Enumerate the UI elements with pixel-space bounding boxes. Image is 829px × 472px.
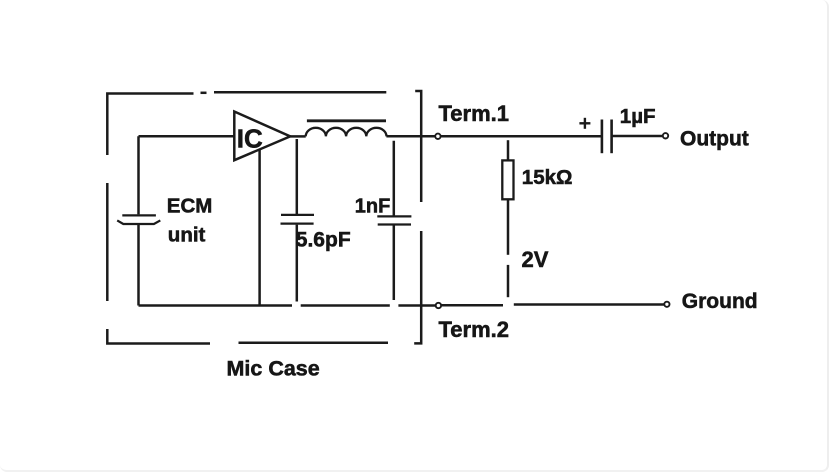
- wire: inductor to Term.1 to 1uF cap: [386, 135, 601, 138]
- wire: IC ground pin: [258, 150, 261, 306]
- wire: resistor branch lower segment 2: [507, 265, 510, 297]
- wire: bottom ground bus to Term.2: [398, 304, 437, 307]
- svg-text:1µF: 1µF: [620, 105, 656, 128]
- wire: resistor junction to Ground terminal: [514, 303, 665, 306]
- svg-text:Term.2: Term.2: [439, 317, 510, 342]
- svg-text:1nF: 1nF: [355, 195, 391, 217]
- wire: bottom ground bus mid: [301, 304, 390, 307]
- svg-text:Term.1: Term.1: [439, 101, 510, 126]
- wire: bottom ground bus left: [139, 304, 293, 307]
- svg-text:5.6pF: 5.6pF: [296, 228, 351, 251]
- electret capsule: ECM unit capacitor symbol: [117, 215, 160, 224]
- wire: resistor branch lower segment 1: [507, 199, 510, 255]
- svg-text:15kΩ: 15kΩ: [522, 166, 573, 189]
- node Ground terminal circle: [664, 302, 669, 307]
- node Term.2 terminal circle: [436, 303, 441, 308]
- svg-text:Output: Output: [680, 127, 749, 150]
- svg-text:Mic Case: Mic Case: [227, 357, 320, 381]
- svg-text:unit: unit: [168, 223, 206, 246]
- node Output terminal circle: [663, 133, 668, 138]
- node Term.1 terminal circle: [435, 134, 440, 139]
- svg-text:Ground: Ground: [682, 290, 758, 313]
- wire: ECM top to IC input (net A): [139, 135, 235, 138]
- wire: resistor branch upper: [507, 140, 510, 160]
- plus polarity mark: [579, 118, 590, 129]
- capacitor 5.6pF: [281, 215, 315, 224]
- capacitor 1nF: [377, 216, 411, 224]
- wire: 1nF branch upper: [393, 141, 396, 216]
- wire: Term.2 to resistor junction: [440, 304, 503, 307]
- resistor 15k ohm body: [502, 160, 513, 199]
- svg-text:ECM: ECM: [167, 195, 213, 218]
- op-amp IC (amplifier triangle): [234, 112, 290, 161]
- svg-text:IC: IC: [237, 123, 263, 153]
- inductor core bar: [307, 119, 386, 122]
- wire: 5.6pF branch upper: [296, 139, 299, 214]
- inductor L1 coil: [306, 128, 387, 137]
- wire: 5.6pF branch lower: [296, 225, 299, 302]
- wire: ECM branch vertical upper: [137, 136, 140, 214]
- wire: IC output to inductor: [290, 135, 306, 138]
- wire: ECM branch vertical lower: [137, 225, 140, 306]
- capacitor 1uF (polarized) plates: [602, 120, 612, 154]
- mic case dashed enclosure: [107, 91, 421, 344]
- wire: 1uF cap to Output terminal: [612, 135, 663, 138]
- svg-text:2V: 2V: [522, 247, 549, 272]
- wire: 1nF branch lower: [393, 225, 396, 300]
